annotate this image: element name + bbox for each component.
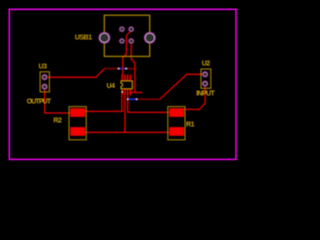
wire T3: U4 pad3 down to R1 top pad (128, 95, 170, 113)
wire blue inner segment via3-via4 (128, 98, 137, 100)
resistor R2 outline (69, 107, 86, 140)
USB1 pin pad bottom-right (129, 39, 134, 44)
USB1 mounting pad left (99, 32, 110, 43)
U2 pad 2 (203, 81, 208, 86)
IC U4 pads top row (121, 75, 123, 81)
connector U3 outline (40, 72, 49, 92)
R2 pad top (70, 108, 85, 117)
USB1 mounting pad right (144, 32, 155, 43)
wire bright diagonal to U2 pad1 (160, 74, 204, 99)
svg-text:OUTPUT: OUTPUT (27, 99, 52, 106)
R1 pad bottom (169, 127, 184, 136)
wire dark red via4 to diagonal (138, 98, 160, 100)
via V1 (118, 68, 120, 70)
connector U2 outline (201, 69, 211, 88)
wire U4 pad8 stub join (129, 92, 135, 94)
wire U2 pad2 to R1 top pad (184, 87, 205, 110)
via V4 (136, 98, 138, 100)
IC U4 pads bottom row (121, 89, 123, 95)
U3 pad 1 (42, 75, 47, 80)
wire T1: U4 pad1 down to R2 top pad (85, 95, 122, 112)
wire T2: U4 pad2 down to bottom rail (124, 95, 126, 133)
wire A: USB pad TR to U4 pad1 (123, 31, 131, 75)
wire U3.1 to via row (bright segment) (48, 69, 105, 78)
svg-text:R1: R1 (186, 122, 195, 129)
via V2 (125, 68, 127, 70)
R2 pad bottom (70, 127, 85, 136)
wire via row left (dark red bottom layer) (105, 68, 119, 70)
USB1 connector outline (104, 15, 149, 56)
svg-text:U2: U2 (202, 61, 211, 68)
wire bottom rail R2 to R1 (85, 131, 170, 133)
wire dark red via2 to trace B (127, 68, 136, 70)
USB1 pin pad top-right (129, 27, 134, 32)
U3 pad 2 (42, 84, 47, 89)
svg-text:R2: R2 (53, 117, 62, 124)
svg-text:U4: U4 (107, 83, 116, 90)
resistor R1 outline (168, 107, 185, 140)
board outline border (9, 9, 236, 159)
via V5 on U4 pad 5 (121, 91, 123, 93)
R1 pad top (169, 108, 184, 117)
wire U3 pad2 to R2 top pad (45, 90, 71, 114)
USB1 pin pad top-left (120, 27, 125, 32)
IC U4 body (121, 81, 132, 89)
svg-text:USB1: USB1 (75, 34, 92, 41)
svg-text:INPUT: INPUT (196, 91, 215, 98)
U2 pad 1 (203, 72, 208, 77)
svg-text:U3: U3 (39, 64, 48, 71)
wire B: USB pad BR down right side of U4 (131, 43, 142, 92)
USB1 pin pad bottom-left (120, 39, 125, 44)
wire blue inner segment via1-via2 (119, 68, 127, 70)
via V3 (127, 98, 129, 100)
